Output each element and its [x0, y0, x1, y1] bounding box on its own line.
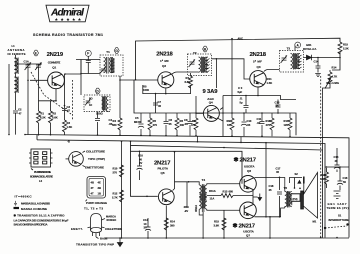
svg-text:40: 40	[335, 159, 338, 163]
svg-text:Q1: Q1	[52, 66, 56, 70]
svg-text:4.7K: 4.7K	[332, 75, 338, 79]
svg-text:IN FERRITE: IN FERRITE	[8, 52, 26, 56]
svg-text:470: 470	[191, 123, 196, 127]
svg-text:10: 10	[144, 222, 147, 226]
svg-text:INTERRUTTORE: INTERRUTTORE	[329, 218, 349, 222]
svg-text:T5: T5	[284, 186, 288, 190]
svg-text:47: 47	[19, 112, 22, 116]
svg-text:MF45: MF45	[134, 120, 141, 124]
svg-text:4T: 4T	[91, 192, 94, 196]
svg-text:3B: 3B	[98, 186, 101, 190]
svg-text:PUNTI ORANGE: PUNTI ORANGE	[86, 201, 107, 205]
svg-text:R5: R5	[143, 85, 147, 89]
svg-text:R12: R12	[113, 192, 118, 196]
svg-text:(PH): (PH)	[293, 198, 298, 201]
svg-text:C13: C13	[275, 101, 280, 105]
svg-text:47: 47	[67, 109, 70, 113]
svg-text:ROSSO: ROSSO	[107, 218, 117, 222]
svg-text:.05: .05	[247, 123, 251, 127]
svg-text:1D: 1D	[89, 104, 92, 107]
svg-text:45: 45	[276, 104, 279, 108]
svg-text:R14: R14	[170, 220, 175, 224]
svg-text:AVC: AVC	[238, 37, 244, 41]
svg-text:R6: R6	[180, 119, 184, 123]
svg-text:R2: R2	[53, 112, 57, 116]
svg-text:-9V: -9V	[184, 209, 188, 213]
svg-text:R4: R4	[113, 119, 117, 123]
svg-text:9 3A9: 9 3A9	[203, 89, 219, 95]
svg-text:C5: C5	[135, 116, 139, 120]
svg-text:R3: R3	[67, 121, 71, 125]
svg-text:45: 45	[158, 104, 161, 108]
svg-text:1ª MF: 1ª MF	[160, 59, 169, 63]
svg-text:Q3: Q3	[257, 65, 261, 69]
svg-text:-B: -B	[67, 139, 70, 143]
svg-text:R5: R5	[153, 119, 157, 123]
svg-text:50: 50	[343, 180, 346, 184]
svg-text:120: 120	[284, 123, 289, 127]
svg-text:★ ★ ★ ★ ★: ★ ★ ★ ★ ★	[54, 17, 81, 21]
svg-text:100Ω: 100Ω	[96, 112, 103, 116]
svg-text:TIPO (PNP): TIPO (PNP)	[88, 157, 105, 161]
svg-text:C16: C16	[343, 176, 348, 180]
svg-text:1B: 1B	[98, 192, 101, 196]
svg-text:EMETTITORE: EMETTITORE	[85, 165, 104, 169]
svg-text:Q2: Q2	[162, 64, 166, 68]
svg-text:T4: T4	[202, 178, 206, 182]
svg-text:2ª MF: 2ª MF	[253, 59, 262, 63]
svg-text:BASE: BASE	[100, 237, 108, 241]
svg-text:560: 560	[112, 123, 117, 127]
svg-text:IT=460KC: IT=460KC	[15, 194, 33, 198]
svg-text:J1: J1	[240, 97, 243, 101]
svg-text:MASSA COMUNE: MASSA COMUNE	[21, 207, 47, 211]
svg-text:45: 45	[269, 188, 272, 192]
svg-text:C17: C17	[276, 167, 281, 171]
svg-text:.02: .02	[257, 121, 261, 125]
svg-text:C2: C2	[18, 108, 22, 112]
svg-text:T3: T3	[287, 47, 291, 51]
svg-text:R18: R18	[321, 173, 326, 177]
svg-text:C15: C15	[334, 155, 339, 159]
svg-text:USCITA: USCITA	[244, 164, 255, 168]
svg-text:C 0: C 0	[238, 86, 243, 90]
svg-text:3.9K: 3.9K	[214, 224, 220, 228]
svg-text:2N217: 2N217	[240, 158, 257, 164]
svg-text:40: 40	[139, 157, 142, 161]
svg-text:T1: T1	[106, 50, 110, 54]
svg-text:Q5: Q5	[161, 171, 165, 175]
svg-text:C1A: C1A	[24, 60, 29, 64]
svg-text:5µF: 5µF	[238, 90, 243, 94]
svg-text:40Ω: 40Ω	[184, 205, 190, 209]
svg-text:Q6: Q6	[247, 169, 251, 173]
svg-text:100: 100	[321, 177, 326, 181]
svg-text:R9: R9	[227, 119, 231, 123]
svg-text:MARCA: MARCA	[106, 215, 116, 219]
svg-text:4E: 4E	[98, 181, 101, 185]
svg-text:R10: R10	[113, 167, 118, 171]
svg-text:L2: L2	[39, 179, 43, 183]
svg-text:SCHEMA RADIO TRANSISTOR 7M1: SCHEMA RADIO TRANSISTOR 7M1	[33, 33, 103, 37]
svg-text:.05: .05	[184, 122, 188, 126]
svg-text:680: 680	[229, 190, 234, 194]
svg-text:45ΩA: 45ΩA	[194, 205, 198, 212]
svg-text:C10: C10	[138, 154, 143, 158]
svg-text:1500: 1500	[143, 88, 149, 92]
svg-text:Q4: Q4	[209, 101, 213, 105]
svg-text:C7: C7	[158, 100, 162, 104]
svg-text:MASSA SULLA CHASSIS: MASSA SULLA CHASSIS	[21, 201, 50, 205]
svg-text:1K: 1K	[227, 123, 230, 127]
svg-text:Q7: Q7	[246, 233, 250, 237]
svg-text:1.5K: 1.5K	[267, 81, 273, 85]
svg-text:✱: ✱	[233, 222, 238, 229]
svg-text:TRANSISTOR TIPO PNP: TRANSISTOR TIPO PNP	[76, 242, 114, 246]
svg-text:R13: R13	[223, 190, 228, 194]
svg-text:5.6K: 5.6K	[52, 116, 58, 120]
svg-text:R15: R15	[214, 220, 219, 224]
svg-text:2N219: 2N219	[47, 52, 64, 58]
svg-text:45: 45	[169, 122, 172, 126]
svg-text:S2: S2	[295, 172, 299, 176]
svg-text:T1, T2 e T3: T1, T2 e T3	[84, 207, 103, 211]
svg-text:C10: C10	[247, 119, 252, 123]
svg-text:BOBINA OSCILLATORE: BOBINA OSCILLATORE	[30, 175, 53, 179]
svg-text:270: 270	[113, 171, 118, 175]
svg-text:L1: L1	[12, 44, 16, 48]
svg-text:GB1 4AD7: GB1 4AD7	[328, 202, 348, 206]
svg-text:11A: 11A	[210, 197, 215, 201]
svg-text:2.7K: 2.7K	[112, 196, 118, 200]
svg-text:PO: PO	[89, 98, 93, 101]
svg-text:✱ TRANSISTOR 10,11 A ZAFFIRO: ✱ TRANSISTOR 10,11 A ZAFFIRO	[14, 213, 66, 217]
svg-text:S1: S1	[338, 214, 342, 218]
svg-text:R16: R16	[266, 119, 271, 123]
svg-text:45: 45	[276, 170, 279, 174]
svg-text:C3: C3	[67, 105, 71, 109]
svg-text:4B: 4B	[91, 181, 94, 185]
svg-text:R8: R8	[192, 119, 196, 123]
svg-text:C11: C11	[257, 117, 262, 121]
svg-text:470: 470	[153, 123, 158, 127]
svg-text:RIVELAZ.: RIVELAZ.	[303, 47, 317, 51]
svg-text:C18: C18	[269, 184, 274, 188]
svg-text:COLLETTORE: COLLETTORE	[86, 150, 105, 154]
svg-text:R15: R15	[343, 43, 348, 47]
svg-text:6.8K: 6.8K	[185, 80, 191, 84]
svg-text:R17: R17	[284, 119, 289, 123]
svg-text:PILOTA: PILOTA	[158, 166, 169, 170]
svg-text:SALVO DIVERSA SPECIFICA: SALVO DIVERSA SPECIFICA	[14, 223, 49, 227]
svg-text:VOLUME: VOLUME	[326, 81, 339, 85]
svg-text:R11: R11	[267, 77, 272, 81]
svg-text:R1: R1	[41, 112, 45, 116]
svg-text:T2: T2	[193, 51, 197, 55]
svg-text:C14: C14	[143, 218, 148, 222]
svg-text:GR1: GR1	[306, 43, 312, 47]
svg-text:5µ: 5µ	[240, 100, 243, 104]
svg-text:PUNTI MARRONE: PUNTI MARRONE	[34, 170, 51, 174]
svg-text:1.5K: 1.5K	[67, 125, 73, 129]
svg-text:TERM 9A (2V): TERM 9A (2V)	[327, 206, 349, 210]
svg-text:8.2K: 8.2K	[40, 116, 46, 120]
svg-text:2N217: 2N217	[154, 160, 171, 166]
svg-text:2N218: 2N218	[156, 52, 173, 58]
svg-text:EMETT.: EMETT.	[71, 227, 83, 231]
svg-text:4T: 4T	[91, 186, 94, 190]
svg-text:390: 390	[170, 224, 175, 228]
svg-text:C8: C8	[184, 118, 188, 122]
svg-text:2N218: 2N218	[250, 52, 267, 58]
svg-text:✱: ✱	[234, 156, 239, 163]
svg-text:ANTENNA: ANTENNA	[8, 48, 25, 52]
svg-text:E: E	[35, 51, 37, 55]
svg-text:3V: 3V	[144, 226, 147, 230]
svg-text:F: F	[87, 52, 89, 56]
svg-text:R7: R7	[186, 76, 190, 80]
svg-text:R11A: R11A	[209, 189, 216, 193]
svg-text:R14: R14	[332, 66, 337, 70]
svg-text:C6: C6	[169, 118, 173, 122]
svg-text:C14: C14	[314, 60, 319, 64]
svg-text:CONVERT.: CONVERT.	[48, 61, 61, 65]
svg-text:COLLETTORE: COLLETTORE	[105, 227, 122, 231]
svg-text:470: 470	[266, 123, 271, 127]
svg-text:9V: 9V	[139, 161, 142, 165]
svg-text:M1: M1	[313, 220, 317, 224]
svg-text:2.2K: 2.2K	[343, 47, 349, 51]
